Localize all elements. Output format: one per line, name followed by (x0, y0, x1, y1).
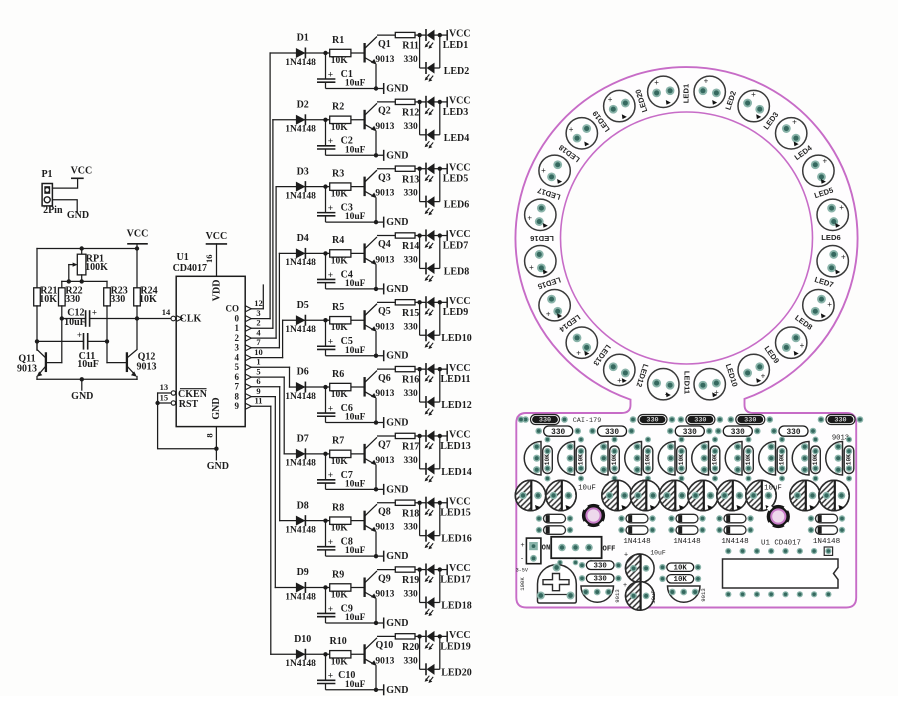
pin 7 (6) (245, 384, 251, 390)
svg-text:D6: D6 (297, 367, 309, 378)
transistor 9013 footprint #8 (759, 442, 776, 476)
LED11 footprint (694, 369, 725, 400)
svg-text:330: 330 (594, 576, 608, 584)
svg-text:+: + (569, 125, 574, 134)
svg-text:R2: R2 (332, 102, 344, 113)
svg-text:LED9: LED9 (443, 307, 469, 318)
svg-text:100K: 100K (519, 577, 526, 591)
svg-text:U1 CD4017: U1 CD4017 (761, 539, 801, 547)
wire: output 5 to stage 6 (251, 366, 289, 368)
svg-text:LED12: LED12 (441, 400, 472, 411)
pads (746, 437, 752, 443)
svg-text:330: 330 (683, 429, 697, 437)
capacitor 10uF (bottom pair) (626, 554, 655, 583)
svg-text:9: 9 (256, 386, 260, 396)
capacitor 10uF footprint #7 (717, 480, 747, 510)
svg-text:C4: C4 (341, 269, 353, 280)
svg-text:0: 0 (235, 313, 240, 323)
transistor 9013 footprint #5 (658, 442, 675, 476)
capacitor C11 10uF (37, 340, 84, 342)
wire: R22 column (61, 306, 63, 363)
svg-text:10uF: 10uF (77, 359, 99, 370)
svg-text:D3: D3 (297, 166, 309, 177)
transistor Q11 9013 (45, 353, 47, 371)
transistor Q12 9013 (126, 353, 128, 371)
svg-text:9013: 9013 (17, 363, 37, 374)
resistor 10K vertical #5 (677, 446, 687, 474)
stage 3: D3,R3,C3,Q3,R13,LED5,LED6 (285, 162, 470, 228)
resistor 330 (dark row, #5) (818, 415, 864, 425)
svg-text:R9: R9 (332, 569, 344, 580)
power connector 3-5V (526, 538, 541, 564)
svg-text:R10: R10 (329, 636, 346, 647)
svg-text:LED3: LED3 (443, 107, 469, 118)
svg-text:C9: C9 (341, 603, 353, 614)
resistor 10K vertical #7 (744, 446, 754, 474)
stage 10: D10,R10,C10,Q10,R20,LED19,LED20 (285, 630, 470, 696)
capacitor 10uF footprint #3 (602, 480, 632, 510)
svg-text:7: 7 (235, 381, 240, 391)
wire: CKEN/RST tie to ground (158, 393, 217, 449)
mounting hole (582, 504, 605, 527)
IC pad (754, 548, 760, 554)
svg-text:R18: R18 (402, 508, 419, 519)
transistor 9013 footprint #4 (625, 442, 642, 476)
capacitor 10uF footprint #1 (515, 480, 545, 510)
transistor 9013 footprint #9 (792, 442, 809, 476)
resistor R23 330 (106, 281, 108, 287)
transistor 9013 footprint #10 (826, 442, 843, 476)
svg-text:+: + (520, 542, 524, 549)
svg-text:R3: R3 (332, 168, 344, 179)
svg-text:+: + (92, 307, 97, 317)
svg-text:LED19: LED19 (440, 641, 471, 652)
svg-text:R13: R13 (402, 174, 419, 185)
LED7 footprint (817, 246, 848, 277)
svg-text:330: 330 (551, 429, 565, 437)
svg-text:GND: GND (71, 391, 93, 402)
LED9 footprint (776, 327, 807, 358)
svg-text:U1: U1 (176, 252, 188, 263)
svg-text:R1: R1 (332, 35, 344, 46)
pads (846, 437, 852, 443)
svg-text:Q8: Q8 (378, 506, 391, 517)
svg-text:10uF: 10uF (578, 484, 596, 492)
svg-text:C3: C3 (341, 203, 353, 214)
svg-text:VCC: VCC (206, 231, 228, 242)
stage 7: D7,R7,C7,Q7,R17,LED13,LED14 (285, 430, 470, 496)
svg-text:C10: C10 (338, 670, 355, 681)
svg-text:Q2: Q2 (378, 106, 391, 117)
transistor 9013 (bottom right) (668, 586, 701, 602)
svg-text:LED15: LED15 (440, 508, 471, 519)
svg-text:R8: R8 (332, 502, 344, 513)
svg-text:R7: R7 (332, 436, 344, 447)
pin 3 (7) (245, 345, 251, 351)
svg-text:LED6: LED6 (821, 233, 840, 242)
svg-text:D4: D4 (297, 233, 309, 244)
svg-text:+: + (624, 551, 628, 558)
svg-text:+: + (541, 166, 546, 175)
svg-text:GND: GND (207, 461, 229, 472)
svg-text:R12: R12 (402, 108, 419, 119)
pads (612, 437, 618, 443)
svg-text:5: 5 (256, 366, 260, 376)
transistor 9013 footprint #7 (725, 442, 742, 476)
svg-text:330: 330 (786, 429, 800, 437)
wire P1 pin1 to VCC (52, 178, 77, 188)
resistor 10K vertical #10 (844, 446, 854, 474)
LED1 footprint (648, 76, 679, 107)
resistor 10K vertical #8 (777, 446, 787, 474)
capacitor 10uF footprint #5 (659, 480, 689, 510)
pin 5 (1) (245, 364, 251, 370)
svg-text:C7: C7 (341, 470, 353, 481)
resistor 10K (bottom) (667, 563, 694, 571)
svg-text:+: + (827, 300, 832, 309)
svg-text:1N4148: 1N4148 (623, 538, 651, 546)
svg-text:R11: R11 (402, 41, 419, 52)
pads (679, 437, 685, 443)
stage 9: D9,R9,C9,Q9,R19,LED17,LED18 (285, 563, 470, 629)
resistor 330 (outline row, #4) (723, 426, 752, 436)
wire: R21 column (36, 306, 38, 349)
slide switch (551, 537, 601, 558)
svg-text:C6: C6 (341, 403, 353, 414)
svg-text:+: + (546, 310, 551, 319)
svg-text:10K: 10K (674, 576, 688, 584)
wire: output 9 to stage 10 (251, 405, 270, 407)
svg-text:8: 8 (204, 433, 214, 437)
resistor R24 10K (136, 249, 138, 288)
svg-text:1N4148: 1N4148 (721, 538, 749, 546)
svg-text:330: 330 (110, 294, 125, 305)
LED19 footprint (566, 118, 597, 149)
svg-text:Q9: Q9 (378, 573, 391, 584)
svg-text:LED13: LED13 (440, 441, 471, 452)
resistor 330 (outline row, #2) (598, 426, 627, 436)
stage 1: D1,R1,C1,Q1,R11,LED1,LED2 (285, 29, 470, 95)
capacitor C12 10uF (62, 318, 86, 320)
pads (545, 437, 551, 443)
svg-text:R14: R14 (402, 241, 419, 252)
svg-text:Q10: Q10 (376, 640, 394, 651)
boxed pad (824, 547, 832, 555)
resistor 10K vertical #4 (643, 446, 653, 474)
svg-text:VCC: VCC (127, 229, 149, 240)
svg-text:LED8: LED8 (444, 266, 470, 277)
PCB board outline (516, 67, 858, 607)
svg-text:R5: R5 (332, 302, 344, 313)
pads (813, 437, 819, 443)
svg-text:3: 3 (256, 308, 260, 318)
stage 4: D4,R4,C4,Q4,R14,LED7,LED8 (285, 229, 470, 295)
svg-text:D8: D8 (297, 500, 309, 511)
svg-text:14: 14 (162, 307, 171, 317)
capacitor 10uF footprint #4 (630, 480, 660, 510)
svg-text:100K: 100K (85, 262, 108, 273)
pin 0 (3) (245, 316, 251, 322)
LED3 footprint (738, 90, 769, 121)
capacitor 10uF footprint #8 (746, 480, 776, 510)
wire: R23 column (106, 306, 108, 363)
svg-text:15: 15 (160, 392, 169, 402)
svg-text:C2: C2 (341, 136, 353, 147)
svg-text:4: 4 (235, 352, 240, 362)
svg-text:+: + (800, 341, 805, 350)
LED8 footprint (803, 290, 834, 321)
wire: top rail (37, 248, 137, 250)
LED10 footprint (738, 354, 769, 385)
LED14 footprint (566, 327, 597, 358)
svg-text:9013: 9013 (614, 589, 621, 602)
LED5 footprint (803, 155, 834, 186)
svg-text:D1: D1 (297, 33, 309, 44)
svg-text:+: + (617, 376, 622, 385)
potentiometer RP1 100K (81, 249, 83, 255)
diode 1N4148 footprint pair #2 (618, 514, 655, 523)
svg-text:1N4148: 1N4148 (813, 538, 841, 546)
mounting hole (767, 505, 790, 528)
svg-text:C1: C1 (341, 69, 353, 80)
capacitor 10uF footprint #2 (546, 480, 576, 510)
svg-text:1: 1 (235, 323, 240, 333)
svg-text:VDD: VDD (211, 280, 222, 302)
svg-text:R16: R16 (402, 375, 419, 386)
svg-text:10uF: 10uF (650, 549, 666, 556)
pin 8 (9) (245, 394, 251, 400)
svg-text:LED6: LED6 (444, 200, 470, 211)
svg-text:ON: ON (542, 544, 551, 552)
resistor 330 (dark row, #1) (522, 415, 568, 425)
svg-text:LED7: LED7 (443, 240, 469, 251)
IC pad (740, 548, 746, 554)
LED15 footprint (539, 290, 570, 321)
svg-text:Q4: Q4 (378, 239, 391, 250)
svg-text:9013: 9013 (137, 361, 157, 372)
pin CLK (14) (171, 316, 176, 321)
diode 1N4148 footprint pair #4 (716, 514, 753, 523)
wire: output 1 to stage 2 (251, 327, 273, 329)
resistor 330 (bottom) (586, 574, 614, 583)
IC pad (768, 548, 774, 554)
svg-text:5: 5 (235, 362, 240, 372)
diode 1N4148 footprint pair #3 (668, 514, 705, 523)
resistor 10K vertical #3 (610, 446, 620, 474)
svg-text:12: 12 (254, 298, 263, 308)
resistor 10K vertical #9 (811, 446, 821, 474)
svg-text:D7: D7 (297, 434, 309, 445)
LED13 footprint (604, 354, 635, 385)
svg-text:+: + (761, 371, 766, 380)
resistor 330 (outline row, #3) (675, 426, 704, 436)
pin CO (12) (245, 306, 251, 312)
resistor 10K (bottom) (667, 575, 694, 583)
svg-text:LED2: LED2 (444, 66, 470, 77)
resistor 330 (dark row, #3) (678, 415, 724, 425)
wire: output 8 to stage 9 (251, 396, 275, 398)
svg-text:LED16: LED16 (441, 534, 472, 545)
pin 4 (10) (245, 355, 251, 361)
svg-text:LED17: LED17 (440, 574, 471, 585)
svg-text:+: + (77, 330, 82, 340)
svg-text:Q6: Q6 (378, 373, 391, 384)
svg-text:1N4148: 1N4148 (673, 538, 701, 546)
svg-text:CAI-179: CAI-179 (573, 417, 602, 425)
svg-text:+: + (751, 90, 756, 99)
wire: emitter rail (37, 378, 137, 380)
svg-text:CLK: CLK (180, 313, 202, 324)
svg-text:GND: GND (211, 397, 222, 419)
wire: output 4 to stage 5 (251, 357, 282, 359)
pads (645, 437, 651, 443)
svg-text:RST: RST (179, 399, 199, 410)
capacitor 10uF footprint #10 (819, 480, 849, 510)
svg-text:10K: 10K (139, 294, 157, 305)
LED16 footprint (525, 246, 556, 277)
svg-text:LED18: LED18 (441, 600, 472, 611)
svg-text:R19: R19 (402, 575, 419, 586)
svg-text:330: 330 (605, 429, 619, 437)
resistor 330 (dark row, #4) (728, 415, 774, 425)
svg-text:LED1: LED1 (682, 83, 691, 103)
LED12 footprint (648, 369, 679, 400)
svg-text:2Pin: 2Pin (43, 205, 63, 216)
wire P1 pin2 to GND (52, 200, 77, 212)
svg-text:13: 13 (160, 382, 169, 392)
svg-text:LED16: LED16 (530, 234, 554, 243)
svg-text:GND: GND (67, 210, 89, 221)
resistor R22 330 (61, 281, 63, 287)
svg-text:8: 8 (235, 391, 240, 401)
diode 1N4148 footprint pair #5 (808, 514, 845, 523)
svg-text:LED14: LED14 (441, 467, 472, 478)
LED2 footprint (694, 76, 725, 107)
pin 9 (11) (245, 403, 251, 409)
transistor 9013 footprint #6 (692, 442, 709, 476)
svg-text:Q1: Q1 (378, 39, 391, 50)
IC pad (797, 548, 803, 554)
svg-text:R15: R15 (402, 308, 419, 319)
resistor 330 (outline row, #5) (779, 426, 808, 436)
pin 2 (4) (245, 335, 251, 341)
svg-text:10uF: 10uF (764, 484, 782, 492)
pin 6 (5) (245, 374, 251, 380)
svg-text:Q3: Q3 (378, 172, 391, 183)
svg-text:Q7: Q7 (378, 440, 391, 451)
svg-text:D10: D10 (294, 634, 311, 645)
svg-text:10uF: 10uF (64, 317, 86, 328)
capacitor 10uF footprint #9 (790, 480, 820, 510)
capacitor 10uF footprint #6 (688, 480, 718, 510)
LED17 footprint (525, 199, 556, 230)
pads (712, 437, 718, 443)
svg-text:CO: CO (226, 303, 240, 313)
svg-text:+: + (822, 157, 827, 166)
transistor 9013 (bottom left) (581, 586, 614, 602)
svg-text:LED5: LED5 (443, 174, 469, 185)
transistor 9013 footprint #3 (591, 442, 608, 476)
wire: output 2 to stage 3 (251, 337, 276, 339)
resistor 10K vertical #1 (543, 446, 553, 474)
svg-text:R4: R4 (332, 235, 344, 246)
svg-text:10K: 10K (674, 565, 688, 573)
resistor 330 (dark row, #2) (630, 415, 676, 425)
wire: output 6 to stage 7 (251, 376, 284, 378)
svg-text:CD4017: CD4017 (173, 263, 207, 274)
svg-text:6: 6 (235, 372, 240, 382)
stage 2: D2,R2,C2,Q2,R12,LED3,LED4 (285, 96, 470, 162)
svg-text:P1: P1 (41, 169, 52, 180)
svg-text:LED1: LED1 (443, 40, 469, 51)
ground (oscillator) (81, 379, 83, 390)
pin RST (15) with bubble (158, 402, 172, 404)
resistor 10K vertical #2 (576, 446, 586, 474)
svg-text:D9: D9 (297, 567, 309, 578)
svg-text:+: + (704, 76, 709, 85)
svg-text:OFF: OFF (603, 545, 616, 553)
wire: CLK line to U1 (137, 318, 171, 320)
wire: output 3 to stage 4 (251, 347, 279, 349)
transistor 9013 footprint #2 (558, 442, 575, 476)
svg-text:LED4: LED4 (444, 133, 470, 144)
svg-text:9013: 9013 (700, 588, 707, 601)
wire: output 0 to stage 1 (251, 318, 270, 320)
IC pad (811, 548, 817, 554)
ground (U1 pin8) (215, 427, 217, 460)
svg-text:+: + (841, 253, 846, 262)
svg-text:3: 3 (235, 342, 240, 352)
stray pad (518, 416, 525, 423)
pads (779, 437, 785, 443)
LED20 footprint (604, 90, 635, 121)
IC U1 CD4017 footprint (723, 559, 839, 588)
IC pad (782, 548, 788, 554)
diode 1N4148 footprint pair #1 (536, 514, 573, 523)
svg-text:LED11: LED11 (683, 371, 692, 395)
svg-text:10uF: 10uF (650, 590, 657, 603)
svg-text:+: + (576, 349, 581, 358)
resistor R21 10K (36, 249, 38, 288)
svg-text:10K: 10K (39, 294, 57, 305)
pin CKEN (13) with bubble (158, 392, 172, 394)
wire: output 7 to stage 8 (251, 386, 279, 388)
IC pad (725, 548, 731, 554)
svg-text:+: + (623, 582, 627, 589)
svg-text:+: + (792, 118, 797, 127)
svg-text:C5: C5 (341, 336, 353, 347)
stage 8: D8,R8,C8,Q8,R18,LED15,LED16 (285, 496, 470, 562)
svg-text:VCC: VCC (71, 165, 93, 176)
resistor 330 (outline row, #1) (544, 426, 573, 436)
svg-text:3-5V: 3-5V (516, 567, 529, 573)
svg-text:330: 330 (731, 429, 745, 437)
svg-text:330: 330 (65, 294, 80, 305)
resistor 10K vertical #6 (710, 446, 720, 474)
wire: R24/CLK column (136, 306, 138, 349)
svg-text:Q5: Q5 (378, 306, 391, 317)
wire: wiper (68, 265, 70, 282)
svg-text:LED11: LED11 (440, 374, 470, 385)
transistor 9013 footprint #1 (524, 442, 541, 476)
pads (578, 437, 584, 443)
svg-text:330: 330 (594, 563, 608, 571)
PCB inner circle (561, 112, 813, 364)
VCC symbol (P1) (72, 177, 83, 179)
svg-text:LED20: LED20 (441, 667, 472, 678)
svg-text:16: 16 (204, 254, 214, 263)
svg-text:10: 10 (254, 347, 263, 357)
